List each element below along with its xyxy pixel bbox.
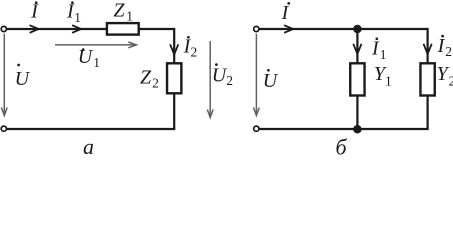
- voltage arrow U2 (circuit a): [209, 41, 211, 118]
- current arrow I1 (circuit b): [353, 44, 361, 54]
- svg-text:I: I: [30, 1, 39, 23]
- wire branch Y2 upper (circuit b): [427, 28, 429, 63]
- wire branch Y1 upper (circuit b): [356, 29, 358, 63]
- svg-text:Z: Z: [113, 0, 125, 22]
- svg-text:1: 1: [126, 9, 133, 24]
- svg-text:Z: Z: [140, 67, 152, 89]
- impedance Z1 box: [107, 23, 139, 34]
- svg-text:1: 1: [380, 47, 387, 62]
- current arrow I1 (circuit a): [72, 25, 81, 33]
- current arrow I2 (circuit b): [424, 44, 432, 54]
- svg-text:I: I: [371, 38, 380, 60]
- svg-text:U: U: [263, 70, 279, 92]
- junction dot top (circuit b): [353, 25, 362, 34]
- wire bottom (circuit b): [259, 128, 427, 130]
- wire bottom (circuit a): [7, 128, 175, 130]
- current arrow I (circuit a): [30, 25, 39, 33]
- svg-text:U: U: [78, 46, 94, 68]
- wire right vertical upper (circuit a): [173, 28, 175, 63]
- terminal bottom-left (circuit b): [254, 126, 259, 131]
- junction dot bottom (circuit b): [353, 125, 362, 134]
- wire top (circuit a): [7, 28, 174, 30]
- svg-text:2: 2: [445, 44, 452, 59]
- svg-text:1: 1: [93, 55, 100, 70]
- voltage arrow U1 (circuit a): [55, 44, 136, 46]
- voltage arrow U (circuit a): [3, 34, 5, 116]
- svg-text:1: 1: [74, 10, 81, 25]
- svg-text:1: 1: [385, 73, 392, 88]
- svg-text:2: 2: [191, 44, 198, 59]
- current arrow I (circuit b): [284, 25, 293, 33]
- terminal top-left (circuit b): [254, 26, 259, 31]
- voltage arrow U (circuit b): [255, 34, 257, 116]
- svg-text:I: I: [281, 2, 290, 24]
- svg-text:a: a: [83, 134, 94, 158]
- svg-text:2: 2: [226, 73, 233, 88]
- impedance Z2 box: [167, 63, 181, 93]
- wire right vertical lower (circuit a): [173, 94, 175, 129]
- svg-text:2: 2: [449, 73, 453, 88]
- svg-text:б: б: [335, 134, 347, 158]
- wire top (circuit b): [259, 28, 427, 30]
- admittance Y1 box: [350, 63, 364, 95]
- terminal bottom-left (circuit a): [1, 126, 6, 131]
- svg-text:U: U: [15, 68, 31, 90]
- terminal top-left (circuit a): [1, 26, 6, 31]
- current arrow I2 (circuit a): [170, 44, 178, 54]
- wire branch Y1 lower (circuit b): [356, 96, 358, 129]
- admittance Y2 box: [420, 63, 434, 95]
- svg-text:2: 2: [152, 76, 159, 91]
- wire branch Y2 lower (circuit b): [427, 96, 429, 130]
